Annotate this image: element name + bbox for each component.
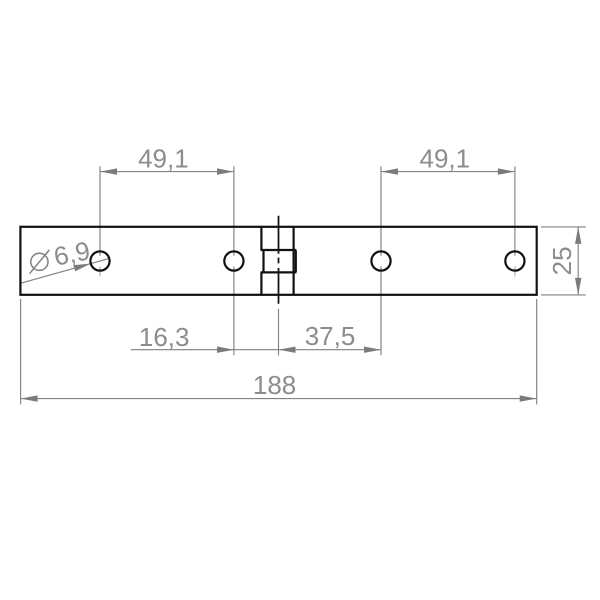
svg-text:49,1: 49,1 (138, 144, 189, 174)
svg-text:49,1: 49,1 (419, 144, 470, 174)
svg-text:25: 25 (547, 246, 577, 275)
svg-text:16,3: 16,3 (139, 322, 190, 352)
svg-text:37,5: 37,5 (305, 321, 356, 351)
svg-text:188: 188 (253, 370, 296, 400)
